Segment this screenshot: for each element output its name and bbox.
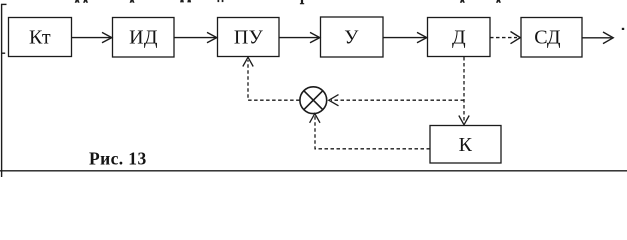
block Д [428, 18, 491, 57]
block СД [521, 18, 582, 58]
block К [430, 126, 501, 164]
dashed branch wire to comparator right [329, 95, 464, 106]
svg-text:Д: Д [452, 26, 466, 48]
block ПУ [218, 18, 280, 57]
dashed wire Д down to К [459, 57, 469, 125]
dashed wire Д to СД [490, 32, 520, 44]
block ИД [113, 18, 175, 58]
svg-text:К: К [459, 134, 473, 156]
svg-text:Кт: Кт [29, 26, 51, 48]
comparator circle with cross [300, 87, 327, 114]
block У [321, 17, 384, 57]
svg-text:ИД: ИД [129, 26, 158, 48]
output wire from СД [582, 32, 613, 44]
cut-off text remnants along top edge [75, 0, 625, 30]
dashed feedback wire to ПУ bottom [243, 57, 300, 100]
wire ИД to ПУ [174, 32, 217, 42]
svg-text:Рис. 13: Рис. 13 [89, 148, 147, 168]
dashed wire К to comparator bottom [310, 114, 430, 149]
svg-text:СД: СД [534, 26, 561, 48]
wire ПУ to У [279, 32, 320, 42]
table bottom rule [0, 170, 627, 172]
svg-text:ПУ: ПУ [234, 26, 264, 48]
block Кт [9, 18, 72, 57]
table left border [1, 4, 7, 177]
wire Кт to ИД [72, 32, 112, 42]
svg-text:У: У [344, 26, 359, 48]
wire У to Д [383, 32, 427, 42]
